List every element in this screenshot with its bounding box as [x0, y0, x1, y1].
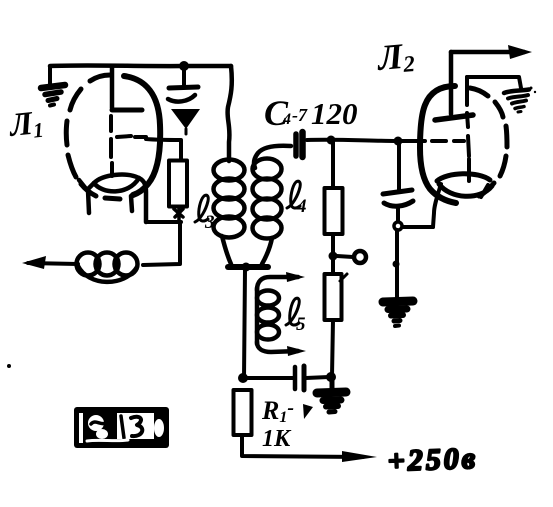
wire cathode to grid-resistor node	[146, 220, 181, 224]
wire cathode node down	[395, 230, 399, 298]
wire resistor to ground node	[332, 320, 333, 376]
tube U2 anode lead	[449, 52, 454, 114]
tube U1 (Л1) envelope solid right side	[124, 76, 160, 195]
wire grid bus	[307, 140, 425, 141]
coil L5	[257, 277, 298, 352]
junction dot top rail	[179, 61, 189, 71]
junction blob under resistor	[174, 207, 183, 222]
arrowhead L5 bottom	[287, 346, 306, 356]
svg-text:-7: -7	[292, 105, 308, 125]
wire resistor bottom to coil	[143, 222, 180, 265]
tube U2 filament tick	[481, 185, 488, 197]
svg-text:+250в: +250в	[387, 442, 479, 478]
tube U2 envelope dashed right side	[470, 88, 507, 196]
transformer winding L4	[253, 159, 282, 239]
junction dot tap	[329, 252, 338, 261]
tube U1 filament legs	[79, 180, 132, 213]
transformer bottom funnel	[222, 236, 272, 267]
wire U2 anode rail	[451, 50, 524, 55]
label L3	[195, 195, 215, 233]
tube U1 grid dashes	[117, 136, 146, 137]
wire node to bypass cap	[247, 376, 293, 380]
tube U1 cathode stub	[110, 163, 114, 176]
tube U1 inner dashed screen	[109, 116, 113, 157]
capacitor Cf coupling	[296, 132, 303, 157]
junction dot grid bus left	[327, 136, 336, 145]
wire U1 grid lead to resistor	[146, 139, 181, 161]
input coil L-ant	[77, 253, 138, 282]
wire top anode rail	[50, 63, 231, 68]
terminal circle	[354, 251, 366, 263]
label R1	[261, 396, 313, 452]
wire transformer bottom down	[244, 270, 245, 378]
arrowhead L5 top	[286, 272, 305, 282]
capacitor cathode bypass U2	[383, 141, 413, 223]
wire U1 cathode lead	[139, 178, 146, 222]
ground scribble top right	[504, 90, 529, 113]
tube U2 screen dashes	[467, 113, 469, 181]
resistor chain bottom	[325, 274, 342, 320]
junction dot ground node	[326, 372, 336, 382]
wire to resistor chain	[331, 140, 335, 188]
label L5	[286, 298, 306, 335]
svg-text:4: 4	[282, 111, 291, 128]
wire between resistors	[331, 234, 335, 274]
label L4	[287, 181, 307, 217]
wire antenna lead left	[28, 263, 78, 264]
arrowhead antenna	[22, 256, 46, 269]
tube U2 anode plate	[435, 115, 473, 120]
svg-text:Л1: Л1	[6, 105, 45, 145]
stamp box	[74, 407, 169, 448]
junction dot grid bus right	[394, 137, 403, 146]
wire rail right drop to L3	[228, 66, 232, 161]
resistor grid-leak of U1	[169, 161, 187, 207]
arrowhead +250	[342, 451, 377, 462]
resistor chain top	[325, 188, 343, 234]
capacitor bypass bottom	[295, 366, 304, 390]
tube U2 grid dashes	[432, 139, 464, 143]
junction dot cathode	[394, 222, 402, 230]
tube U2 cathode lens	[437, 174, 492, 197]
tube U1 cathode lens	[94, 175, 139, 192]
wire L4 top lead to cap	[254, 146, 291, 168]
tube U1 anode plate	[112, 108, 142, 113]
capacitor filter to chassis	[168, 66, 198, 102]
tube U2 screen lead	[465, 77, 469, 105]
wire cap to ground node	[306, 377, 329, 378]
label Cf value	[264, 93, 358, 133]
tube U1 envelope dashed left side	[66, 75, 120, 199]
ground under resistor chain	[317, 381, 346, 412]
junction blob	[393, 261, 400, 268]
svg-text:120: 120	[311, 96, 358, 131]
svg-text:1К: 1К	[262, 426, 292, 452]
junction dot transformer bottom	[242, 263, 251, 272]
svg-text:3: 3	[204, 212, 215, 233]
arrowhead anode output	[508, 45, 532, 59]
svg-text:4: 4	[296, 196, 307, 217]
ink speck	[7, 364, 11, 368]
transformer winding L3	[214, 160, 245, 238]
resistor R1	[234, 390, 252, 435]
wire R1 to +250	[242, 435, 363, 457]
svg-text:Л2: Л2	[374, 35, 416, 79]
wire U2 screen rail	[467, 77, 521, 88]
junction dot R1 top	[238, 373, 248, 383]
wire U2 cathode lead	[433, 184, 441, 227]
svg-text:R1-: R1-	[261, 396, 294, 426]
ground scribble specks	[530, 87, 537, 94]
svg-text:5: 5	[296, 314, 306, 335]
ground under U2 cathode	[383, 301, 413, 326]
ground top-left	[41, 66, 65, 106]
tick on resistor	[340, 274, 347, 281]
wire cathode bottom	[399, 225, 433, 229]
tube U2 (Л2) envelope solid left side	[420, 86, 456, 203]
tube U1 anode lead	[110, 66, 115, 108]
wire tap to terminal	[337, 256, 353, 257]
ground arrow under filter cap	[171, 109, 200, 129]
